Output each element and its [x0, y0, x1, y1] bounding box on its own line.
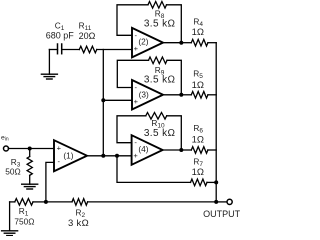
wire rail	[215, 43, 217, 202]
resistor R4	[181, 42, 191, 44]
node OUTPUT	[216, 201, 227, 203]
wire	[49, 49, 57, 51]
svg-text:1Ω: 1Ω	[192, 167, 204, 178]
node junction	[101, 154, 105, 158]
wire	[62, 49, 80, 51]
wire	[103, 99, 132, 101]
node junction	[214, 200, 218, 204]
svg-text:680 pF: 680 pF	[46, 30, 75, 40]
resistor R1	[10, 201, 15, 203]
svg-text:1Ω: 1Ω	[192, 134, 204, 145]
ground	[9, 202, 11, 231]
resistor R11	[79, 46, 97, 53]
svg-text:1Ω: 1Ω	[192, 27, 204, 38]
ground	[22, 183, 38, 185]
svg-text:3.5 kΩ: 3.5 kΩ	[144, 128, 176, 139]
wire	[167, 116, 182, 150]
node junction	[28, 147, 32, 151]
op-amp U2	[132, 28, 163, 58]
svg-text:3.5 kΩ: 3.5 kΩ	[144, 75, 176, 86]
svg-text:(1): (1)	[63, 151, 73, 161]
node junction	[179, 93, 183, 97]
svg-text:(2): (2)	[138, 37, 148, 47]
svg-text:750Ω: 750Ω	[14, 217, 34, 227]
wire	[117, 60, 148, 87]
node junction	[214, 180, 218, 184]
svg-text:OUTPUT: OUTPUT	[203, 209, 241, 219]
node junction	[115, 154, 119, 158]
svg-text:+: +	[57, 144, 62, 153]
capacitor C1	[57, 44, 59, 54]
node junction	[179, 148, 183, 152]
ground	[48, 50, 50, 75]
resistor R7	[117, 156, 191, 183]
wire	[87, 155, 132, 157]
node junction	[179, 41, 183, 45]
resistor R8	[148, 2, 167, 9]
svg-text:1Ω: 1Ω	[192, 80, 204, 91]
wire	[163, 94, 181, 96]
wire	[167, 5, 182, 43]
wire bus	[102, 50, 104, 156]
resistor R10	[146, 113, 167, 120]
resistor R9	[149, 57, 168, 64]
svg-text:3 kΩ: 3 kΩ	[68, 218, 89, 229]
wire	[88, 201, 217, 203]
wire	[167, 60, 181, 95]
resistor R6	[181, 149, 191, 151]
resistor R5	[181, 94, 191, 96]
op-amp U4	[132, 135, 163, 165]
node junction	[44, 200, 48, 204]
wire	[163, 149, 182, 151]
svg-text:(4): (4)	[138, 144, 148, 154]
wire	[46, 162, 54, 202]
svg-text:ein: ein	[1, 134, 9, 142]
svg-text:(3): (3)	[139, 89, 149, 99]
node junction	[101, 98, 105, 102]
resistor R2	[46, 201, 72, 203]
wire	[117, 5, 148, 36]
wire	[117, 116, 146, 143]
svg-text:3.5 kΩ: 3.5 kΩ	[144, 19, 176, 30]
wire	[8, 148, 54, 150]
op-amp U3	[132, 80, 163, 110]
wire	[97, 49, 132, 51]
svg-text:50Ω: 50Ω	[5, 166, 20, 176]
op-amp U1	[54, 140, 87, 171]
resistor R3	[29, 149, 31, 157]
svg-text:20Ω: 20Ω	[79, 31, 96, 41]
wire	[163, 42, 181, 44]
